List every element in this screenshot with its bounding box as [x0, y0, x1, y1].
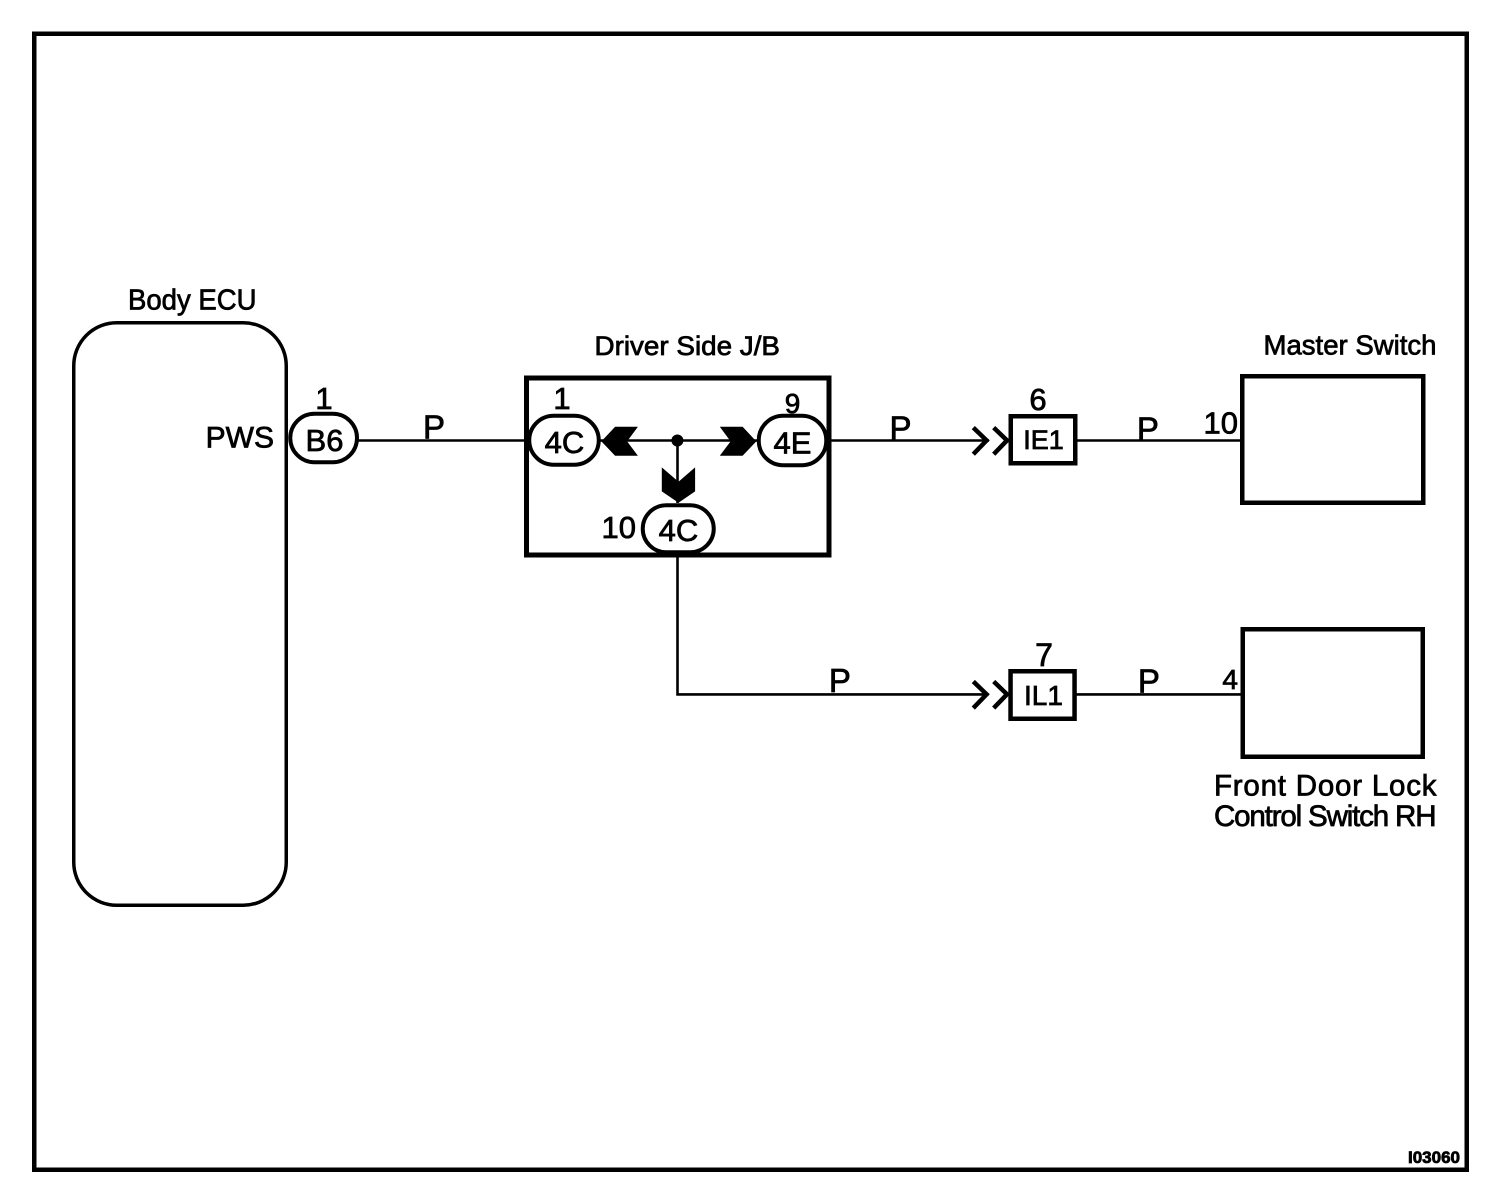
svg-text:1: 1 — [315, 381, 332, 416]
svg-text:P: P — [889, 410, 911, 447]
chevron pair at IL1 — [973, 682, 986, 709]
svg-text:P: P — [829, 662, 851, 699]
wire 4C pin10 down and right — [678, 553, 989, 695]
svg-text:7: 7 — [1035, 637, 1053, 673]
bus wire inside J/B — [601, 439, 758, 442]
Master Switch box — [1242, 376, 1423, 503]
svg-text:P: P — [1137, 411, 1159, 448]
wire IE1 to Master Switch — [1078, 439, 1241, 442]
wire 4E to chevrons — [826, 439, 989, 442]
svg-text:1: 1 — [553, 381, 570, 416]
Front Door Lock Control Switch RH box — [1243, 629, 1423, 757]
connector IE1 — [1011, 416, 1076, 463]
svg-text:6: 6 — [1029, 382, 1046, 417]
svg-text:9: 9 — [785, 388, 801, 419]
svg-text:10: 10 — [602, 510, 636, 545]
arrow left — [601, 427, 638, 456]
svg-text:Control Switch RH: Control Switch RH — [1214, 800, 1437, 833]
connector 4C pin 1 oval — [529, 416, 599, 465]
svg-text:IE1: IE1 — [1023, 425, 1064, 455]
wire IL1 to Front Door Lock Control Switch — [1077, 693, 1241, 696]
connector 4E pin 9 oval — [759, 416, 827, 466]
svg-text:PWS: PWS — [206, 422, 274, 455]
svg-text:Master Switch: Master Switch — [1264, 330, 1437, 361]
svg-text:I03060: I03060 — [1408, 1148, 1460, 1167]
svg-text:Driver Side J/B: Driver Side J/B — [595, 331, 781, 361]
svg-text:4C: 4C — [659, 513, 699, 548]
svg-text:P: P — [423, 409, 445, 446]
arrow down — [662, 467, 695, 502]
Driver Side J/B box — [527, 378, 830, 555]
wire junction down — [676, 441, 679, 504]
wire B6 to J/B — [357, 439, 530, 442]
connector B6 — [290, 414, 357, 463]
svg-text:B6: B6 — [306, 423, 344, 458]
body ECU block — [74, 323, 287, 906]
svg-text:IL1: IL1 — [1024, 680, 1063, 711]
svg-text:Front Door Lock: Front Door Lock — [1214, 770, 1437, 803]
svg-text:4C: 4C — [545, 425, 585, 460]
svg-text:4: 4 — [1222, 664, 1238, 695]
svg-text:4E: 4E — [774, 426, 812, 461]
junction dot — [671, 435, 683, 447]
svg-text:Body ECU: Body ECU — [128, 285, 257, 317]
connector IL1 — [1011, 671, 1075, 719]
arrow right — [720, 427, 757, 456]
chevron pair at IE1 — [973, 428, 986, 455]
svg-text:10: 10 — [1204, 406, 1238, 441]
svg-text:P: P — [1138, 663, 1160, 700]
connector 4C pin 10 oval — [643, 505, 714, 552]
